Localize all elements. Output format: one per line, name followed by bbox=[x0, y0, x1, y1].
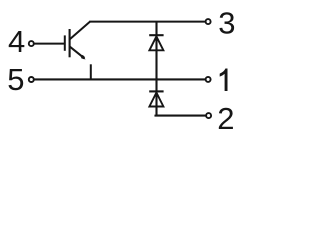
terminal circle pin 1 bbox=[206, 77, 211, 82]
diode D2 triangle bbox=[149, 93, 163, 107]
diode D1 cathode bar bbox=[149, 34, 163, 36]
wire bottom to pin 2 bbox=[156, 115, 206, 116]
transistor IGBT gate bar bbox=[64, 35, 66, 50]
terminal circle pin 4 bbox=[29, 41, 34, 46]
terminal circle pin 3 bbox=[206, 19, 211, 24]
terminal label 1 bbox=[220, 69, 228, 92]
wire top collector rail to pin 3 bbox=[89, 21, 205, 23]
transistor IGBT body bar bbox=[69, 29, 71, 57]
terminal circle pin 2 bbox=[206, 113, 211, 118]
wire gate lead from pin 4 to gate bbox=[34, 43, 65, 45]
svg-text:5: 5 bbox=[7, 62, 24, 97]
wire emitter vertical to node bbox=[90, 64, 92, 79]
diode D1 triangle bbox=[149, 36, 163, 50]
wire middle rail pin 5 to pin 1 bbox=[34, 78, 205, 80]
transistor IGBT emitter diagonal with arrow bbox=[69, 46, 83, 57]
wire diode column vertical bbox=[155, 22, 157, 115]
svg-text:2: 2 bbox=[217, 101, 234, 136]
svg-text:4: 4 bbox=[8, 24, 25, 59]
svg-text:3: 3 bbox=[218, 6, 235, 41]
diode D2 cathode bar bbox=[149, 90, 163, 92]
terminal circle pin 5 bbox=[29, 77, 34, 82]
transistor IGBT collector diagonal bbox=[69, 22, 90, 40]
